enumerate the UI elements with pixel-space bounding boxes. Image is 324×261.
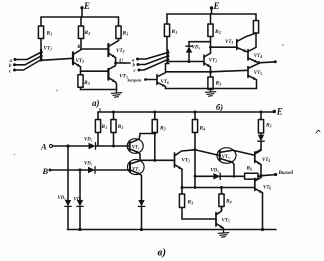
svg-text:R3: R3	[159, 126, 166, 132]
svg-text:VT5: VT5	[222, 219, 230, 224]
svg-text:VD1: VD1	[192, 46, 201, 51]
svg-text:VT2: VT2	[132, 168, 140, 173]
svg-text:VT1: VT1	[44, 46, 53, 52]
svg-text:в): в)	[158, 247, 167, 259]
svg-text:б): б)	[216, 102, 223, 112]
svg-text:VT3: VT3	[225, 40, 233, 45]
svg-text:Uк: Uк	[119, 59, 126, 65]
svg-text:R4: R4	[199, 126, 206, 132]
svg-text:VT2: VT2	[209, 59, 217, 64]
svg-text:R1: R1	[171, 29, 178, 35]
svg-text:VD5: VD5	[211, 168, 220, 173]
svg-text:Выход: Выход	[278, 169, 294, 176]
svg-text:R2: R2	[214, 29, 221, 35]
svg-text:VT5: VT5	[254, 71, 262, 76]
svg-text:E: E	[213, 1, 220, 11]
svg-text:A: A	[40, 142, 47, 152]
svg-text:VT3: VT3	[116, 48, 125, 54]
svg-text:VD1: VD1	[84, 138, 93, 143]
svg-text:VT4: VT4	[262, 158, 270, 163]
svg-text:R1: R1	[46, 31, 53, 37]
svg-text:R6: R6	[246, 166, 253, 172]
svg-text:VT4: VT4	[254, 54, 262, 59]
svg-text:c: c	[9, 69, 12, 74]
svg-text:R2: R2	[117, 124, 124, 130]
svg-text:VT1: VT1	[132, 145, 140, 150]
svg-text:R5: R5	[265, 123, 272, 129]
svg-text:R1: R1	[101, 124, 108, 130]
svg-text:VT2: VT2	[76, 58, 85, 64]
svg-text:a: a	[132, 58, 135, 63]
svg-text:E: E	[83, 1, 90, 11]
svg-text:VT5: VT5	[222, 155, 230, 160]
svg-text:R4: R4	[225, 199, 232, 205]
svg-text:R3: R3	[122, 31, 129, 37]
svg-text:R3: R3	[187, 200, 194, 206]
svg-text:VD3: VD3	[58, 196, 67, 201]
svg-text:c: c	[134, 69, 137, 74]
svg-text:R3: R3	[215, 81, 222, 87]
svg-text:VT3: VT3	[182, 159, 190, 164]
svg-text:VD4: VD4	[74, 198, 83, 203]
svg-text:Запрет: Запрет	[126, 77, 142, 82]
svg-text:B: B	[42, 166, 49, 176]
svg-text:R3: R3	[83, 80, 90, 86]
svg-text:VT6: VT6	[263, 186, 271, 191]
svg-text:b: b	[133, 64, 136, 69]
svg-text:VD2: VD2	[84, 162, 93, 167]
svg-text:а): а)	[92, 98, 100, 108]
svg-text:R2: R2	[84, 30, 91, 36]
svg-text:E: E	[276, 107, 283, 117]
